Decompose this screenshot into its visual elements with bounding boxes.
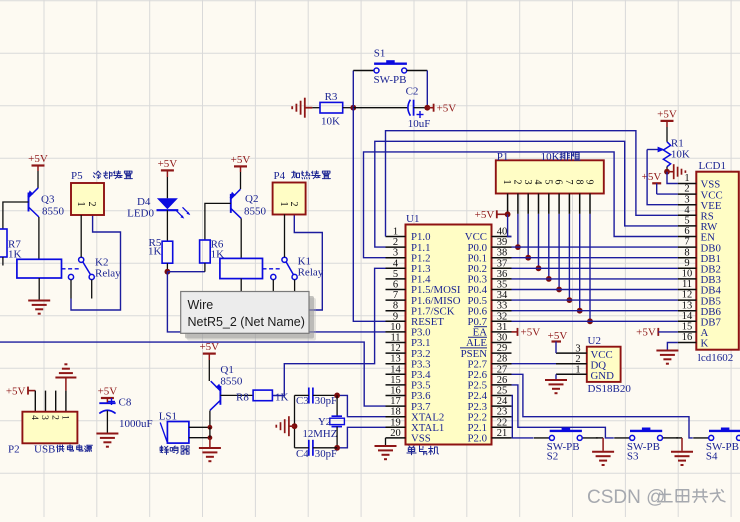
svg-text:P2: P2	[8, 443, 20, 455]
svg-text:24: 24	[497, 396, 508, 407]
svg-text:1: 1	[575, 365, 580, 376]
tooltip Wire NetR5_2	[181, 292, 316, 341]
transistor Q1 8550	[210, 364, 243, 411]
svg-text:5: 5	[684, 216, 689, 227]
power +5V (LCD VCC, pointing down)	[642, 171, 678, 194]
node LS1 pin2	[208, 435, 213, 440]
svg-text:+5V: +5V	[657, 108, 677, 120]
svg-text:R1: R1	[671, 137, 684, 149]
svg-text:Relay: Relay	[298, 266, 324, 278]
svg-text:+5V: +5V	[28, 153, 48, 165]
wire P5 pin1 to K2 common	[80, 215, 82, 257]
svg-text:16: 16	[682, 332, 693, 343]
wire K1 coil down (hidden by tooltip)	[240, 279, 242, 296]
wire P1.3 to R8 (buzzer drive)	[272, 268, 385, 395]
wire R6 bottom	[204, 263, 206, 272]
svg-text:1000uF: 1000uF	[119, 418, 153, 430]
svg-text:10: 10	[682, 269, 693, 280]
ground (P2 pin1, inverted)	[55, 364, 76, 390]
svg-text:38: 38	[497, 248, 508, 259]
switch S1	[374, 48, 407, 86]
svg-text:22: 22	[497, 417, 508, 428]
svg-text:10K: 10K	[671, 149, 690, 161]
ground (S3)	[671, 452, 693, 465]
label 10K network (CJK+latin)	[541, 151, 581, 163]
wire P2.6 to S4	[512, 374, 693, 438]
ground (K2)	[28, 301, 50, 314]
relay K2 contacts	[62, 256, 122, 279]
ground (left of R3)	[292, 98, 312, 118]
svg-text:19: 19	[390, 417, 401, 428]
wire C3 right to node	[313, 394, 337, 396]
label USB power supply (CJK+latin)	[34, 443, 92, 455]
svg-text:7: 7	[684, 237, 689, 248]
svg-text:4: 4	[532, 180, 543, 185]
svg-text:2: 2	[684, 184, 689, 195]
svg-text:29: 29	[497, 343, 508, 354]
transistor Q2 8550	[230, 189, 267, 218]
wire R5 node to R6	[167, 271, 205, 273]
svg-text:LED0: LED0	[127, 208, 154, 220]
svg-text:36: 36	[497, 269, 508, 280]
wire +5V down to Q3	[37, 166, 39, 172]
resistor R7 1K	[0, 229, 22, 260]
svg-text:2: 2	[288, 202, 299, 207]
wire LCD K to ground	[667, 343, 678, 350]
pull-up verticals P1 pins 2-9	[518, 214, 590, 321]
P1 pin stubs	[508, 194, 590, 214]
svg-text:21: 21	[497, 428, 508, 439]
svg-text:14: 14	[682, 311, 693, 322]
node R1/VSS	[664, 169, 670, 175]
potentiometer R1 10K	[647, 137, 690, 166]
resistor R8	[236, 390, 288, 403]
svg-text:P4: P4	[274, 170, 286, 182]
wire S1 right down to C2 node	[407, 70, 428, 72]
connector P5	[71, 170, 104, 215]
IC U2 DS18B20	[587, 335, 632, 395]
svg-text:+5V: +5V	[642, 171, 662, 183]
svg-text:34: 34	[497, 290, 508, 301]
svg-text:15: 15	[390, 375, 401, 386]
LCD pins 1-16	[678, 173, 723, 350]
svg-text:+5V: +5V	[521, 327, 541, 339]
svg-text:23: 23	[497, 407, 508, 418]
svg-text:Q3: Q3	[41, 193, 55, 205]
svg-text:17: 17	[390, 396, 401, 407]
wire C2 to +5V node	[414, 107, 428, 109]
svg-text:2: 2	[575, 354, 580, 365]
svg-text:1: 1	[75, 202, 86, 207]
svg-text:12MHZ: 12MHZ	[303, 428, 338, 440]
resistor R6 1K	[200, 238, 225, 263]
power +5V (Q1)	[199, 341, 219, 354]
power +5V (P1 pin1/VCC)	[475, 209, 508, 221]
node XTAL1 junction	[334, 445, 340, 451]
svg-text:1: 1	[684, 173, 689, 184]
P1 pin digits	[501, 180, 594, 185]
svg-text:20: 20	[390, 428, 401, 439]
svg-text:S3: S3	[627, 451, 639, 463]
svg-text:P1: P1	[497, 151, 509, 163]
ground (LS1/Q1)	[199, 448, 221, 461]
svg-text:8: 8	[393, 301, 398, 312]
capacitor C8 1000uF	[99, 397, 152, 430]
wire C3/C4 left riser	[294, 395, 296, 447]
wire Q2 collector to K1 coil	[240, 218, 242, 258]
svg-text:C4: C4	[296, 448, 309, 460]
svg-text:15: 15	[682, 322, 693, 333]
svg-text:Relay: Relay	[95, 267, 121, 279]
svg-text:7: 7	[393, 290, 398, 301]
svg-text:USB: USB	[34, 443, 55, 455]
node ground tap	[292, 423, 298, 429]
wire P2.7 to U2 DQ	[512, 363, 557, 365]
svg-text:P5: P5	[71, 170, 83, 182]
svg-text:25: 25	[497, 386, 508, 397]
wire Q1 collector to buzzer	[209, 411, 211, 428]
wire K2 NC contact down	[70, 280, 72, 299]
wire Q2 base to R6	[205, 203, 231, 240]
svg-text:31: 31	[497, 322, 508, 333]
wire Q1 base to R8	[220, 394, 253, 396]
svg-text:30pF: 30pF	[315, 448, 337, 460]
svg-text:+5V: +5V	[636, 327, 656, 339]
wire junction to C2	[353, 107, 407, 109]
wire +5V to Q2 emitter	[240, 166, 242, 172]
U1 right pins 40-21	[460, 227, 512, 445]
wire P1.1 to LCD RW	[375, 141, 678, 247]
node P1 pin1/+5V/VCC	[505, 211, 511, 217]
svg-text:27: 27	[497, 364, 508, 375]
connector P2 body	[8, 412, 77, 456]
svg-text:5: 5	[393, 269, 398, 280]
svg-text:1: 1	[60, 415, 70, 420]
wire Q3 base to R7	[3, 202, 29, 229]
svg-text:+5V: +5V	[98, 386, 118, 398]
wire K2 coil to ground	[38, 278, 40, 300]
svg-text:C8: C8	[119, 397, 132, 409]
capacitor C3	[296, 388, 337, 408]
wire +5V to Q1 emitter	[208, 354, 210, 360]
svg-text:32: 32	[497, 311, 508, 322]
ground (LCD VSS, rotated right)	[667, 164, 685, 179]
svg-text:D4: D4	[137, 196, 151, 208]
node junction R3/S1/C2/RESET	[350, 105, 356, 111]
junction dots on P0 bus	[515, 244, 593, 324]
svg-text:NetR5_2 (Net Name): NetR5_2 (Net Name)	[188, 315, 305, 329]
P0.0-P0.7 bus wires to LCD DB0-DB7	[512, 247, 678, 321]
svg-text:4: 4	[29, 415, 39, 420]
svg-text:9: 9	[684, 258, 689, 269]
svg-text:35: 35	[497, 280, 508, 291]
LED D4	[127, 196, 190, 220]
LCD1 lcd1602 body	[696, 160, 739, 364]
svg-text:CSDN @: CSDN @	[587, 487, 665, 508]
svg-text:SW-PB: SW-PB	[374, 74, 407, 86]
ground (crystal)	[276, 416, 294, 436]
power +5V (R1)	[657, 108, 677, 121]
svg-text:11: 11	[390, 333, 400, 344]
svg-text:1: 1	[501, 180, 512, 185]
connector P4	[273, 170, 306, 215]
wire XTAL2	[337, 395, 385, 416]
wire R7 bottom stub	[2, 257, 4, 266]
svg-text:4: 4	[684, 205, 690, 216]
capacitor C2	[406, 86, 431, 131]
svg-text:C2: C2	[406, 86, 419, 98]
svg-text:10uF: 10uF	[408, 118, 431, 130]
label cooling device (CJK)	[93, 171, 132, 179]
wire K1 contacts down	[272, 280, 274, 299]
wire LS1 pins to collector	[189, 426, 210, 428]
svg-text:Q2: Q2	[245, 193, 258, 205]
svg-text:U2: U2	[588, 335, 601, 347]
wire +5V to LED	[166, 170, 168, 177]
wire node to LCD pin1	[667, 172, 678, 184]
wire junction up to S1 left	[352, 71, 354, 108]
node XTAL2 junction	[334, 393, 340, 399]
svg-text:16: 16	[390, 386, 401, 397]
node C2/+5V junction	[424, 105, 430, 111]
svg-text:8: 8	[573, 180, 584, 185]
switch S4	[693, 428, 740, 463]
wire VSS to ground	[385, 438, 387, 445]
power +5V (U2 VCC, pointing down)	[548, 330, 568, 353]
svg-text:P2.0: P2.0	[467, 433, 487, 445]
svg-text:9: 9	[393, 311, 398, 322]
wire R1 wiper to LCD VEE	[647, 150, 678, 205]
svg-text:2: 2	[512, 180, 523, 185]
relay K1 coil	[220, 258, 263, 278]
wire K2 NO contact down	[91, 280, 93, 299]
svg-text:Wire: Wire	[188, 298, 214, 312]
svg-text:7: 7	[563, 180, 574, 185]
power +5V (EA pin31)	[512, 327, 541, 339]
switch S3	[614, 428, 678, 463]
wire node down to crystal	[336, 395, 338, 416]
svg-text:5: 5	[542, 180, 553, 185]
svg-text:3: 3	[684, 194, 689, 205]
svg-text:8550: 8550	[220, 375, 243, 387]
buzzer LS1	[159, 410, 189, 443]
ground (C8)	[96, 434, 118, 447]
label MCU (CJK)	[407, 446, 439, 455]
svg-text:6: 6	[553, 180, 564, 185]
wire C3 left	[295, 394, 309, 396]
wire U2 GND down	[555, 374, 557, 379]
label buzzer (CJK)	[160, 446, 190, 455]
svg-text:3: 3	[522, 180, 533, 185]
label heating device (CJK)	[292, 171, 331, 179]
svg-text:1: 1	[393, 227, 398, 238]
svg-text:+5V: +5V	[475, 209, 495, 221]
wire crystal to lower node	[336, 427, 338, 448]
wire P4 pin2 loop	[273, 214, 322, 310]
resistor network P1	[496, 151, 604, 194]
svg-text:8550: 8550	[42, 205, 65, 217]
wire S3 to ground	[676, 437, 682, 439]
svg-text:+5V: +5V	[437, 103, 457, 115]
svg-text:12: 12	[390, 343, 401, 354]
wire ground-R3	[312, 107, 320, 109]
svg-text:8550: 8550	[244, 205, 267, 217]
wire between nodes and to ground	[209, 427, 211, 437]
svg-text:1: 1	[278, 202, 289, 207]
wire P4 pin1 to K1 common	[284, 214, 286, 257]
power +5V (top, at C2)	[427, 103, 456, 115]
wire P3.7 long net	[0, 342, 386, 406]
wire P2.4 to S2	[512, 396, 534, 438]
wire +5V to R1	[666, 121, 668, 127]
power +5V (Q3 emitter)	[28, 153, 48, 166]
crystal Y2 12MHZ	[303, 416, 345, 440]
svg-text:+5V: +5V	[6, 385, 26, 397]
svg-text:1K: 1K	[148, 246, 162, 258]
IC U1 (89C51) body	[406, 213, 492, 445]
svg-text:+5V: +5V	[548, 330, 568, 342]
ground (LCD K)	[656, 351, 678, 364]
svg-text:2: 2	[49, 415, 59, 420]
svg-text:+5V: +5V	[231, 154, 251, 166]
U2 pins 3,2,1	[556, 344, 587, 376]
U1 left pins 1-20	[386, 227, 461, 445]
power +5V (D4)	[158, 158, 178, 171]
svg-text:3: 3	[575, 344, 580, 355]
power +5V (C8)	[98, 386, 118, 399]
svg-text:4: 4	[393, 258, 399, 269]
svg-text:lcd1602: lcd1602	[698, 352, 733, 364]
relay K1 contacts	[263, 255, 324, 279]
wire R3 to junction	[343, 107, 354, 109]
svg-text:13: 13	[390, 354, 401, 365]
svg-text:10: 10	[390, 322, 401, 333]
svg-text:1K: 1K	[275, 391, 289, 403]
svg-text:2: 2	[86, 202, 97, 207]
svg-text:12: 12	[682, 290, 693, 301]
svg-text:U1: U1	[406, 213, 419, 225]
capacitor C4	[296, 440, 337, 460]
wire node down to P3.0 (U1 pin10)	[167, 272, 385, 332]
svg-text:S1: S1	[374, 48, 386, 60]
svg-text:+5V: +5V	[199, 341, 219, 353]
svg-text:18: 18	[390, 407, 401, 418]
svg-text:2: 2	[393, 237, 398, 248]
wire Q3 collector to K2 coil	[38, 217, 40, 259]
node R5/R6 junction (NetR5_2)	[165, 269, 171, 275]
power +5V (LCD A pin15)	[636, 327, 678, 339]
power +5V (P2)	[6, 385, 35, 397]
wire P1.2 to LCD EN	[364, 152, 678, 258]
wire C4 sides	[295, 447, 309, 449]
svg-text:Q1: Q1	[220, 364, 233, 376]
wire P2.5 to S3	[512, 385, 614, 438]
wire S2 to ground	[596, 437, 603, 439]
ground (U1 VSS)	[375, 446, 397, 459]
wire VCC pin40 riser	[508, 214, 512, 236]
relay K2 coil	[17, 259, 62, 278]
svg-text:14: 14	[390, 364, 401, 375]
connector P2 pins	[35, 391, 66, 412]
svg-text:6: 6	[684, 226, 689, 237]
resistor R5 1K	[148, 237, 173, 263]
svg-text:10K: 10K	[541, 151, 560, 163]
watermark CSDN	[587, 487, 725, 508]
svg-text:K: K	[701, 338, 709, 350]
svg-text:39: 39	[497, 237, 508, 248]
svg-text:+5V: +5V	[158, 158, 178, 170]
svg-text:11: 11	[682, 279, 692, 290]
wire P5 pin2 loop to contact	[71, 215, 121, 310]
svg-text:LS1: LS1	[159, 410, 177, 422]
ground (U2)	[545, 380, 567, 393]
svg-text:6: 6	[393, 280, 398, 291]
svg-text:S2: S2	[547, 451, 559, 463]
svg-text:C3: C3	[296, 395, 309, 407]
svg-text:26: 26	[497, 375, 508, 386]
wire RESET to R3/S1/C2 node	[353, 108, 385, 322]
svg-text:3: 3	[393, 248, 398, 259]
wire XTAL1	[337, 427, 385, 448]
ground (S2)	[592, 452, 614, 465]
svg-text:28: 28	[497, 354, 508, 365]
svg-text:R3: R3	[325, 91, 338, 103]
svg-text:3: 3	[39, 415, 49, 420]
svg-text:30pF: 30pF	[315, 395, 337, 407]
wire C8 to ground	[106, 411, 108, 433]
wire R5 to node	[166, 263, 168, 272]
wire P1.0 to LCD RS	[386, 131, 678, 237]
svg-text:8: 8	[684, 247, 689, 258]
svg-text:LCD1: LCD1	[699, 160, 727, 172]
svg-text:S4: S4	[706, 451, 718, 463]
svg-text:GND: GND	[591, 370, 615, 382]
svg-text:37: 37	[497, 258, 508, 269]
svg-text:VSS: VSS	[411, 433, 431, 445]
transistor Q3 8550	[27, 188, 64, 218]
node LS1 pin1	[208, 425, 213, 430]
svg-text:DS18B20: DS18B20	[588, 383, 632, 395]
svg-text:9: 9	[584, 180, 595, 185]
wire LED to R5	[166, 210, 168, 241]
svg-text:10K: 10K	[321, 115, 340, 127]
switch S2	[534, 428, 598, 463]
power +5V (Q2)	[231, 154, 251, 167]
svg-text:R8: R8	[236, 391, 249, 403]
svg-text:13: 13	[682, 300, 693, 311]
svg-text:30: 30	[497, 333, 508, 344]
resistor R3	[320, 91, 343, 127]
svg-text:Y2: Y2	[318, 416, 331, 428]
wire R1 bottom to node	[666, 167, 668, 172]
svg-text:40: 40	[497, 227, 508, 238]
svg-text:33: 33	[497, 301, 508, 312]
